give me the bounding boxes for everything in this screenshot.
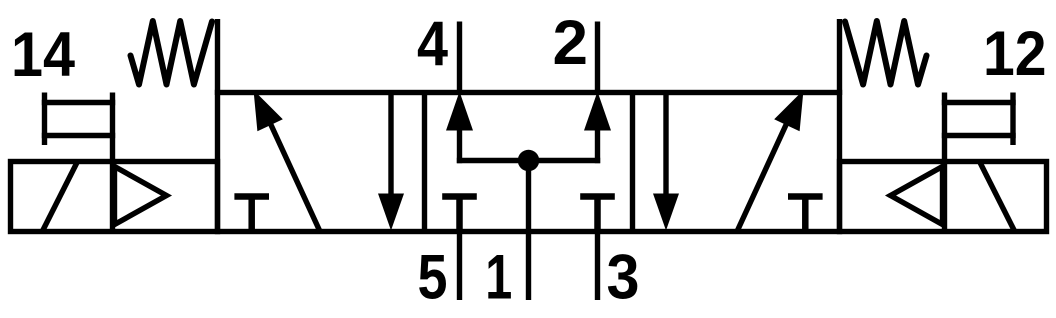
svg-text:4: 4 bbox=[417, 10, 448, 80]
valve body outline bbox=[218, 93, 840, 232]
right pilot rect top bar bbox=[942, 100, 1016, 105]
left box diagonal arrowhead bbox=[254, 90, 283, 131]
position divider right bbox=[630, 93, 635, 232]
left pilot rect top bar bbox=[42, 100, 115, 105]
right box diagonal arrow shaft bbox=[737, 114, 791, 232]
junction node dot bbox=[518, 150, 540, 172]
port 1 line bbox=[526, 229, 531, 300]
port 4 line bbox=[457, 22, 462, 96]
svg-text:5: 5 bbox=[418, 243, 448, 313]
svg-text:12: 12 bbox=[983, 19, 1047, 89]
right actuator pilot triangle bbox=[891, 167, 943, 225]
right pilot actuator box bbox=[840, 162, 1047, 232]
right body edge extension bbox=[837, 19, 842, 95]
right box down-arrowhead bbox=[653, 194, 679, 231]
left pilot rect left bar bbox=[42, 93, 47, 146]
right actuator divider / pilot rect left bar bbox=[942, 93, 947, 232]
right pilot rect bottom bar bbox=[942, 133, 1016, 138]
svg-text:14: 14 bbox=[11, 20, 75, 90]
svg-text:1: 1 bbox=[485, 243, 512, 313]
right box diagonal arrowhead bbox=[774, 90, 803, 131]
position divider left bbox=[422, 93, 427, 232]
left box blocked port T bbox=[234, 197, 269, 232]
port 2 line bbox=[595, 22, 600, 96]
right pilot rect right bar bbox=[1010, 93, 1015, 146]
middle box horizontal link bbox=[457, 158, 600, 163]
left pilot rect bottom bar bbox=[42, 133, 115, 138]
middle box up-arrow to port 2: riser bbox=[595, 128, 600, 163]
left pilot actuator box bbox=[11, 162, 218, 232]
left actuator pilot triangle bbox=[115, 167, 167, 225]
left box down-arrow shaft bbox=[388, 93, 393, 197]
left box diagonal arrow shaft bbox=[266, 114, 320, 232]
middle box blocked port 5 T bbox=[442, 197, 477, 232]
port 5 line bbox=[457, 229, 462, 300]
left return spring bbox=[131, 21, 213, 85]
svg-text:2: 2 bbox=[553, 8, 589, 78]
right return spring bbox=[845, 21, 927, 85]
right box blocked port T bbox=[788, 197, 823, 232]
middle box up-arrow to port 4: riser bbox=[457, 128, 462, 163]
right box down-arrow shaft bbox=[663, 93, 668, 197]
svg-text:3: 3 bbox=[607, 243, 640, 313]
middle box blocked port 3 T bbox=[580, 197, 615, 232]
port 3 line bbox=[595, 229, 600, 300]
left actuator divider / pilot rect right bar bbox=[110, 93, 115, 232]
middle box stem to port 1 bbox=[526, 161, 531, 235]
left body edge extension bbox=[215, 19, 220, 95]
left box down-arrowhead bbox=[378, 194, 404, 231]
left actuator solenoid slash bbox=[43, 163, 78, 232]
middle box up-arrowhead port 2 bbox=[584, 92, 611, 131]
right actuator solenoid slash bbox=[980, 163, 1015, 232]
middle box up-arrowhead port 4 bbox=[446, 92, 473, 131]
